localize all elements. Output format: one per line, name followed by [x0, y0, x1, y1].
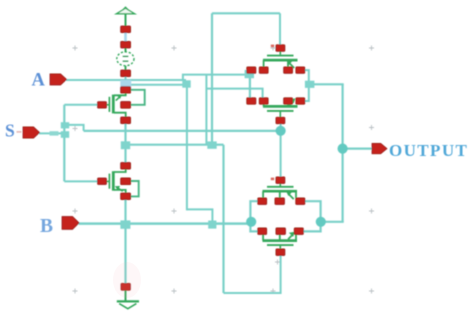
wire spine below vdc: [125, 77, 127, 82]
wire A input horizontal: [66, 79, 186, 81]
node light blue square on spine at A: [120, 80, 131, 91]
wire Sbar top loop horizontal: [212, 12, 280, 14]
node Sbar junction square on spine: [121, 141, 130, 149]
pin TG2 nmos gate: [276, 249, 285, 256]
svg-text:A: A: [32, 71, 46, 91]
wire node A jog up: [183, 75, 251, 81]
wire Sbar top loop vertical x212: [211, 13, 213, 142]
node S upper junction square: [61, 122, 69, 128]
wire horizontal y88.6 to TG1 nmos source: [206, 89, 262, 99]
wire TG1 input vertical: [249, 78, 251, 102]
svg-text:S: S: [5, 121, 15, 141]
wire TG1 pmos right stub: [305, 70, 309, 101]
pin above ground: [121, 283, 130, 290]
pin M2 bulk: [121, 178, 131, 185]
pin M2 drain: [121, 163, 131, 170]
wire spine to node A horizontal: [126, 84, 186, 86]
node S lower junction square: [61, 131, 69, 138]
node TG2 output junction dot: [316, 217, 326, 227]
pin TG1 row2 outer left: [247, 98, 256, 105]
wire Sbar bottom horizontal: [224, 292, 281, 294]
nmos M2 inverter pull-down: [106, 169, 139, 197]
wire S net vertical to TG1 nmos gate: [280, 124, 282, 127]
pin TG1 nmos drain: [284, 98, 293, 105]
pin M1 gate: [98, 102, 107, 109]
node Sbar junction square middle: [207, 141, 216, 148]
pin vdd stem lower: [121, 41, 131, 48]
pin vdd stem upper: [121, 26, 131, 33]
node OUTPUT junction dot: [338, 144, 348, 154]
nmos M4 transmission gate 1 lower: [263, 98, 298, 117]
wire S jog: [69, 125, 84, 131]
wire S net vertical to TG2 pmos gate: [280, 135, 282, 177]
pin TG2 row2 center: [276, 228, 286, 235]
svg-text:B: B: [40, 216, 53, 237]
pmos M3 transmission gate 1 upper: [263, 51, 298, 68]
wire Sbar jog right: [216, 144, 224, 146]
ground symbol: [117, 290, 139, 309]
wire spine inverter middle: [124, 124, 126, 164]
pin TG1 row1 outer right: [296, 67, 305, 74]
svg-text:OUTPUT: OUTPUT: [389, 141, 468, 160]
nmos M6 transmission gate 2 lower: [263, 232, 298, 249]
wire Sbar top loop down to TG1 pmos gate: [279, 13, 281, 45]
pin input port S: [23, 127, 40, 138]
wire output horizontal to pin: [347, 148, 373, 150]
wire S input stub: [39, 132, 62, 134]
wire output vertical: [342, 84, 344, 222]
wire spine VDD light segment: [124, 33, 127, 42]
pin TG2 row1 left: [258, 198, 267, 205]
pin TG1 nmos gate: [276, 117, 285, 124]
node TG1 input square: [245, 70, 254, 78]
vdd supply symbol: [116, 7, 135, 28]
wire node A vertical down: [186, 88, 188, 211]
wire M1 bulk loop: [131, 90, 145, 105]
wire to M1 gate: [64, 104, 98, 106]
wire TG2 output right vertical: [304, 201, 321, 231]
pin TG1 pmos gate: [276, 45, 285, 52]
pmos M1 inverter pull-up: [106, 90, 145, 118]
node B staircase junction square: [208, 221, 216, 229]
wire M2 bulk loop: [131, 181, 139, 196]
pin M1 source: [121, 87, 131, 94]
pin M1 bulk: [121, 102, 131, 109]
pin output port: [372, 143, 387, 153]
pin input port B: [62, 217, 79, 230]
node TG1 output square: [305, 81, 315, 88]
pin TG2 row1 center: [275, 198, 285, 205]
pmos M5 transmission gate 2 upper: [263, 183, 298, 199]
pin TG2 row2 left: [258, 228, 267, 235]
wire TG2 input left vertical: [250, 201, 258, 231]
pin TG1 pmos drain: [284, 67, 293, 74]
dc source V0: [117, 48, 134, 71]
wire B input horizontal: [79, 222, 249, 225]
wire Sbar up to TG2 nmos gate: [280, 255, 282, 294]
wire Sbar vertical down: [222, 145, 224, 293]
wire to M2 gate: [64, 180, 98, 182]
pin input port A: [50, 74, 67, 85]
wire S main horizontal: [84, 130, 277, 132]
faint pink scan smudge: [113, 262, 141, 298]
node B input junction dot: [246, 217, 256, 227]
pin TG2 pmos gate: [276, 177, 285, 184]
pin TG1 row2 outer right: [296, 98, 305, 105]
pin TG1 row1 outer left: [247, 67, 256, 74]
wire Sbar horizontal from inverter output: [127, 144, 209, 146]
node B spine junction square: [120, 220, 130, 228]
node S control junction dot: [276, 126, 286, 136]
pin TG2 row2 right: [294, 228, 303, 235]
wire TG1 output horizontal: [314, 83, 344, 85]
wire spine inverter to ground: [124, 200, 126, 284]
wire TG2 output horizontal: [325, 221, 344, 223]
wire node A staircase to B row: [187, 209, 213, 222]
pin TG1 nmos source: [259, 98, 268, 105]
wire mid vertical x206: [205, 75, 207, 145]
pin TG1 pmos source: [259, 67, 268, 74]
pin below dc source: [121, 70, 131, 77]
pin TG2 row1 right: [296, 198, 305, 205]
node A junction square: [182, 80, 190, 87]
pin M2 gate: [98, 178, 107, 185]
wire S gates vertical: [63, 105, 65, 182]
pin M1 drain: [121, 117, 131, 124]
pin M2 source: [121, 193, 131, 200]
